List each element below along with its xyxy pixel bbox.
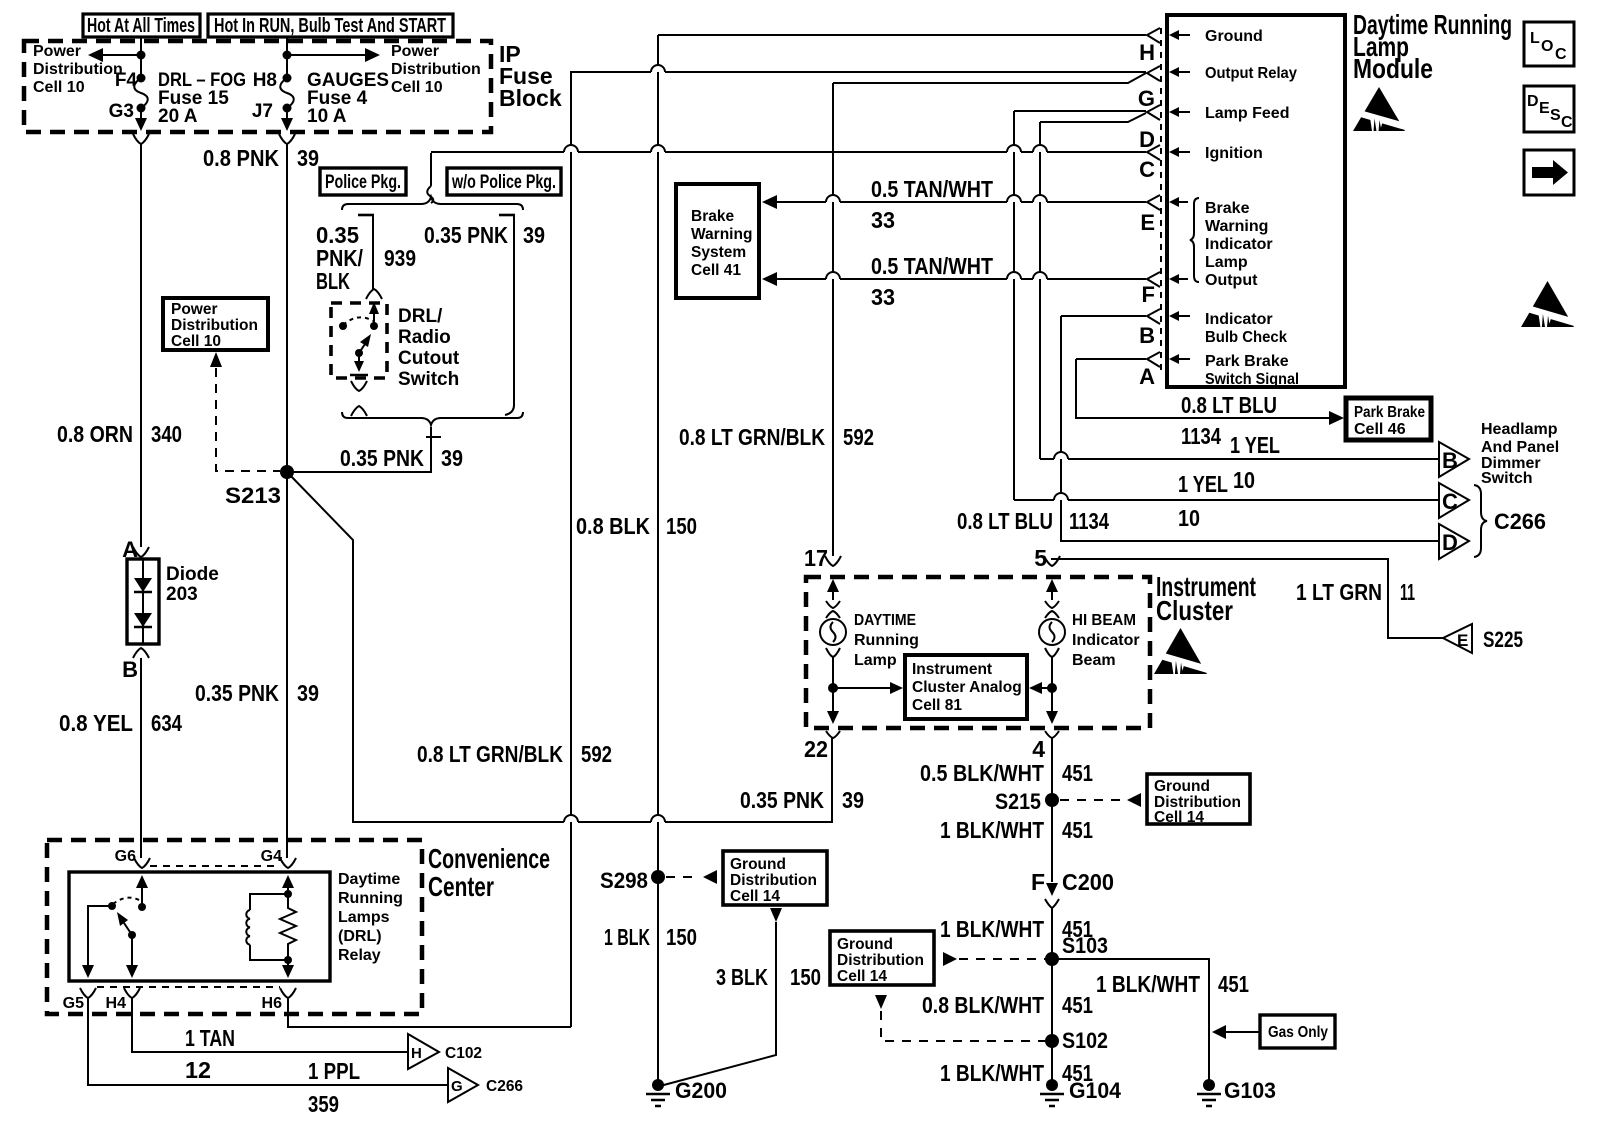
svg-text:C266: C266 <box>1494 509 1546 534</box>
ground G200 <box>646 1078 727 1106</box>
wire hi beam down to pin 4 <box>1046 688 1058 724</box>
svg-text:B: B <box>1442 448 1458 473</box>
svg-text:G3: G3 <box>109 101 134 122</box>
svg-text:Switch Signal: Switch Signal <box>1205 371 1299 388</box>
daytime running lamp bulb <box>820 619 846 645</box>
svg-text:Cell 81: Cell 81 <box>912 697 962 714</box>
svg-text:1 BLK/WHT: 1 BLK/WHT <box>940 1060 1044 1086</box>
relay wire to H6 <box>282 960 294 978</box>
label 0.5 TAN/WHT 33 (upper) <box>871 176 993 233</box>
wire 0.35 PNK 39 from S213 down to G4 <box>286 472 288 858</box>
connector break H4 <box>124 988 140 998</box>
connector break pin 17 <box>825 556 841 566</box>
svg-text:Ground: Ground <box>1205 28 1263 45</box>
svg-text:G: G <box>1138 86 1155 111</box>
svg-text:Lamp Feed: Lamp Feed <box>1205 105 1289 122</box>
svg-text:Relay: Relay <box>338 947 381 964</box>
option wire 0.35 PNK/BLK 939 (police) <box>316 215 416 294</box>
svg-text:Switch: Switch <box>1481 470 1533 487</box>
svg-text:451: 451 <box>1062 992 1093 1018</box>
Convenience Center dashed box <box>47 840 422 1014</box>
pin chevron D (lamp feed) <box>1147 105 1160 120</box>
svg-text:Gas Only: Gas Only <box>1268 1024 1328 1041</box>
connector break G5 <box>80 988 96 998</box>
svg-text:Brake: Brake <box>1205 200 1250 217</box>
svg-text:Distribution: Distribution <box>33 61 123 78</box>
DESC reference box <box>1524 86 1574 132</box>
svg-text:0.5 TAN/WHT: 0.5 TAN/WHT <box>871 176 993 202</box>
riser from brace to S213 wire <box>430 427 432 438</box>
svg-text:Ignition: Ignition <box>1205 145 1263 162</box>
svg-text:Running: Running <box>338 890 403 907</box>
svg-text:A: A <box>1139 364 1155 389</box>
svg-text:C: C <box>1561 114 1573 131</box>
connector triangle C (dimmer switch) <box>1439 483 1469 518</box>
wire S103 to G103 <box>1052 959 1209 1085</box>
connector C200 arrow and break <box>1031 869 1114 908</box>
svg-text:G200: G200 <box>675 1078 727 1103</box>
label Power Distribution Cell 10 (right) <box>391 43 481 96</box>
svg-text:Convenience: Convenience <box>428 843 550 874</box>
svg-text:S103: S103 <box>1062 933 1108 958</box>
svg-text:C102: C102 <box>445 1045 482 1062</box>
pin 5 entry arrow <box>1046 579 1058 600</box>
svg-text:B: B <box>122 657 138 682</box>
ground G103 <box>1197 1078 1276 1106</box>
svg-text:Power: Power <box>171 301 218 318</box>
wire 1 TAN 12 <box>132 998 408 1052</box>
connector triangle E S225 <box>1443 624 1523 653</box>
svg-text:0.8 ORN: 0.8 ORN <box>57 421 133 447</box>
hump ignition over 0.8 BLK vertical <box>651 145 665 152</box>
svg-text:S102: S102 <box>1062 1028 1108 1053</box>
svg-text:Cell 14: Cell 14 <box>730 888 780 905</box>
svg-text:Cutout: Cutout <box>398 348 460 369</box>
label 0.8 LT GRN/BLK 592 (upper) <box>679 424 874 450</box>
svg-text:And Panel: And Panel <box>1481 439 1559 456</box>
svg-text:33: 33 <box>871 284 895 310</box>
splice S215 <box>995 789 1059 814</box>
svg-text:22: 22 <box>804 736 828 762</box>
svg-text:1 PPL: 1 PPL <box>308 1058 360 1084</box>
relay G4 arrow <box>282 875 294 894</box>
label 1 YEL 10 (C) <box>1178 471 1228 531</box>
label 1 YEL 10 (B) <box>1230 432 1280 493</box>
svg-text:39: 39 <box>842 787 864 813</box>
box w/o Police Pkg. <box>447 168 561 195</box>
svg-text:1 BLK/WHT: 1 BLK/WHT <box>940 817 1044 843</box>
label 0.8 YEL 634 <box>59 710 182 736</box>
svg-text:Lamp: Lamp <box>854 652 897 669</box>
svg-text:340: 340 <box>151 421 182 447</box>
header box Hot At All Times <box>83 14 200 37</box>
node dot top of wire 2 <box>283 51 292 60</box>
svg-text:1 BLK/WHT: 1 BLK/WHT <box>1096 971 1200 997</box>
svg-text:150: 150 <box>790 964 821 990</box>
svg-text:D: D <box>1442 530 1458 555</box>
wire daytime lamp down to pin 22 <box>827 688 839 724</box>
svg-text:H6: H6 <box>262 995 283 1012</box>
ground G104 <box>1040 1078 1122 1106</box>
svg-text:Running: Running <box>854 632 919 649</box>
svg-text:1134: 1134 <box>1181 423 1221 449</box>
pin chevron G (output relay) <box>1147 66 1160 81</box>
pin arrow Ignition <box>1169 147 1190 157</box>
svg-text:Indicator: Indicator <box>1205 236 1273 253</box>
svg-text:0.8 BLK/WHT: 0.8 BLK/WHT <box>922 992 1044 1018</box>
svg-text:Warning: Warning <box>691 226 752 243</box>
wire S215 to C200 <box>1051 800 1053 882</box>
wire 1 YEL 10 to dimmer C <box>1014 499 1054 501</box>
label 1 BLK/WHT 451 (above C200) <box>940 817 1093 843</box>
connector triangle H C102 <box>408 1034 482 1069</box>
svg-text:1 LT GRN: 1 LT GRN <box>1296 579 1382 605</box>
svg-text:Module: Module <box>1353 53 1433 84</box>
svg-text:(DRL): (DRL) <box>338 928 382 945</box>
svg-text:Output: Output <box>1205 272 1258 289</box>
svg-text:1 YEL: 1 YEL <box>1230 432 1280 458</box>
wire indicator bulb check 0.8 LT BLU 1134 <box>1061 315 1146 317</box>
svg-text:939: 939 <box>384 245 416 271</box>
fuse F4/G3 DRL-FOG Fuse 15 20A <box>109 70 246 127</box>
svg-text:0.8 LT BLU: 0.8 LT BLU <box>957 508 1053 534</box>
svg-text:39: 39 <box>297 145 319 171</box>
arrow reference box <box>1524 150 1574 195</box>
label Instrument Cluster <box>1156 571 1256 626</box>
svg-text:33: 33 <box>871 207 895 233</box>
svg-text:BLK: BLK <box>316 268 350 294</box>
wire 1 YEL 10 to dimmer B <box>1040 458 1054 460</box>
svg-text:E: E <box>1457 631 1468 650</box>
DRL/Radio Cutout Switch dashed box <box>331 303 387 378</box>
ESD symbol (right margin) <box>1521 281 1574 327</box>
connector break below daytime lamp <box>826 648 840 657</box>
svg-text:C266: C266 <box>486 1078 523 1095</box>
svg-text:G5: G5 <box>63 995 84 1012</box>
label 1 LT GRN 11 <box>1296 579 1415 605</box>
relay switch pivot contact <box>108 902 116 910</box>
arrowhead into brake warning box (upper) <box>762 195 777 209</box>
svg-text:1 BLK/WHT: 1 BLK/WHT <box>940 916 1044 942</box>
splice S213 <box>225 465 294 508</box>
humps TAN/WHT upper over verticals <box>826 195 1047 202</box>
svg-text:F4: F4 <box>115 70 138 91</box>
box Ground Distribution Cell 14 (S215) <box>1147 774 1250 826</box>
box Ground Distribution Cell 14 (S298) <box>723 851 827 905</box>
label 0.8 LT BLU 1134 (park brake) <box>1181 392 1277 449</box>
svg-text:H8: H8 <box>253 70 277 91</box>
svg-text:G6: G6 <box>115 848 136 865</box>
wire daytime lamp to node <box>832 657 834 688</box>
svg-text:592: 592 <box>843 424 874 450</box>
humps TAN/WHT lower over verticals <box>826 272 1047 279</box>
dashed arrow S215 to ground distribution <box>1060 793 1141 807</box>
connector break pin 5 <box>1044 556 1060 566</box>
arrow daytime lamp to cell 81 <box>833 682 903 694</box>
wire from Hot At All Times <box>140 37 142 78</box>
pin arrow Indicator Bulb Check <box>1169 311 1190 321</box>
arrow Gas Only to wire <box>1212 1025 1260 1039</box>
svg-text:E: E <box>1140 210 1155 235</box>
svg-text:0.35 PNK: 0.35 PNK <box>424 222 508 248</box>
label DRL/Radio Cutout Switch <box>398 306 460 390</box>
svg-text:Bulb Check: Bulb Check <box>1205 329 1287 346</box>
label Power Distribution Cell 10 (left) <box>33 43 123 96</box>
connector break pin 4 <box>1045 731 1059 738</box>
hi beam indicator bulb <box>1039 619 1065 645</box>
connector break pin 22 <box>826 731 840 738</box>
relay switch movable arm <box>117 912 136 939</box>
svg-text:1 BLK: 1 BLK <box>604 924 650 950</box>
node daytime lamp <box>828 683 838 693</box>
svg-text:0.5 BLK/WHT: 0.5 BLK/WHT <box>920 760 1044 786</box>
arrowhead into park brake box <box>1329 411 1344 425</box>
wire 1 BLK 150 S298 to G200 <box>657 877 659 1085</box>
brace over option columns <box>342 197 523 210</box>
label DAYTIME Running Lamp <box>854 612 919 669</box>
solid box Power Distribution Cell 10 <box>163 298 268 350</box>
svg-text:System: System <box>691 244 746 261</box>
connector break G4 <box>280 858 296 868</box>
ESD symbol (module) <box>1353 87 1405 131</box>
svg-text:Hot In RUN, Bulb Test And STAR: Hot In RUN, Bulb Test And START <box>214 15 446 37</box>
relay connector dashed line top <box>150 865 280 867</box>
wire hi beam to node <box>1051 657 1053 688</box>
svg-text:451: 451 <box>1062 760 1093 786</box>
svg-text:G4: G4 <box>261 848 282 865</box>
connector break below fuse block (wire 2) <box>279 134 295 144</box>
brace under option columns <box>342 412 523 425</box>
module connector dashed boundary <box>1160 28 1162 375</box>
connector triangle B (dimmer switch) <box>1439 442 1469 477</box>
connector break above DRL switch <box>366 289 382 299</box>
DRL relay box <box>69 872 330 981</box>
connector break below diode <box>133 648 149 658</box>
hump 1 YEL C over bulb check vertical <box>1054 493 1068 500</box>
svg-text:Instrument: Instrument <box>912 661 992 678</box>
svg-text:150: 150 <box>666 924 697 950</box>
box Gas Only <box>1260 1015 1335 1048</box>
svg-text:0.35 PNK: 0.35 PNK <box>340 445 424 471</box>
connector break H6 <box>280 988 296 998</box>
wire pin 4 down to S215 <box>1051 738 1053 800</box>
label 0.8 LT BLU 1134 (bulb check) <box>957 508 1109 534</box>
svg-text:G103: G103 <box>1224 1078 1276 1103</box>
svg-text:G104: G104 <box>1069 1078 1122 1103</box>
label 0.5 TAN/WHT 33 (lower) <box>871 253 993 310</box>
svg-text:1 YEL: 1 YEL <box>1178 471 1228 497</box>
svg-text:20 A: 20 A <box>158 106 198 127</box>
svg-text:S215: S215 <box>995 789 1041 814</box>
svg-text:39: 39 <box>441 445 463 471</box>
svg-text:Cell 10: Cell 10 <box>33 79 85 96</box>
relay switch wire to G5 <box>82 906 112 978</box>
svg-text:592: 592 <box>581 741 612 767</box>
svg-text:359: 359 <box>308 1091 339 1117</box>
box Instrument Cluster Analog Cell 81 <box>905 655 1027 719</box>
wire 0.35 PNK down from fuse 2 to S213 <box>286 144 288 467</box>
label 0.8 BLK 150 <box>576 513 697 539</box>
svg-text:C: C <box>1442 489 1458 514</box>
arrow to Power Distribution (right) <box>287 48 380 62</box>
svg-text:Cell 46: Cell 46 <box>1354 421 1406 438</box>
svg-text:Ground: Ground <box>837 936 893 953</box>
label 0.8 PNK 39 <box>203 145 319 171</box>
relay switch dashed travel arc <box>113 898 141 904</box>
svg-text:634: 634 <box>151 710 182 736</box>
fuse H8/J7 GAUGES Fuse 4 10A <box>252 70 389 127</box>
hump ignition over 592 vertical <box>564 145 578 152</box>
svg-text:0.35 PNK: 0.35 PNK <box>195 680 279 706</box>
svg-text:Cell 14: Cell 14 <box>1154 809 1204 826</box>
connector break G6 <box>134 858 150 868</box>
connector break below hi beam <box>1045 648 1059 657</box>
wire lamp feed second branch 1 YEL to dimmer B <box>1040 113 1146 122</box>
arrowhead into brake warning box (lower) <box>762 272 777 286</box>
connector break above diode <box>133 547 149 557</box>
svg-text:Indicator: Indicator <box>1072 632 1140 649</box>
node hi beam <box>1047 683 1057 693</box>
svg-text:F: F <box>1142 282 1155 307</box>
svg-text:DRL/: DRL/ <box>398 306 443 327</box>
pin 17 entry arrow <box>827 579 839 600</box>
svg-text:Cell 41: Cell 41 <box>691 262 741 279</box>
svg-text:F: F <box>1031 869 1045 895</box>
label 1 PPL 359 <box>308 1058 360 1117</box>
arrow to Power Distribution (left) <box>88 48 141 62</box>
pin chevron B (indicator bulb check) <box>1147 309 1160 324</box>
DRL cutout switch <box>339 302 379 375</box>
label 0.8 BLK/WHT 451 <box>922 992 1093 1018</box>
hump pin22 wire over 0.8 BLK vertical <box>651 815 665 822</box>
svg-text:11: 11 <box>1400 579 1415 605</box>
svg-text:Radio: Radio <box>398 327 451 348</box>
dashed arrow ground distribution to S103 <box>943 952 1045 966</box>
svg-text:S225: S225 <box>1483 627 1523 652</box>
svg-text:J7: J7 <box>252 101 273 122</box>
label 3 BLK 150 <box>716 964 821 990</box>
label 0.8 LT GRN/BLK 592 (lower) <box>417 741 612 767</box>
svg-text:H: H <box>1139 40 1155 65</box>
label Brake Warning Indicator Lamp Output <box>1205 200 1273 289</box>
wire from Hot In RUN box <box>286 37 288 78</box>
label 1 BLK/WHT 451 (to G104) <box>940 1060 1093 1086</box>
svg-text:Ground: Ground <box>1154 778 1210 795</box>
svg-text:Cluster: Cluster <box>1156 595 1233 626</box>
dashed arrow ground distribution to S102 <box>875 995 1045 1041</box>
wire 0.5 TAN/WHT 33 (lower) to brake warning <box>774 278 826 280</box>
svg-text:0.8 PNK: 0.8 PNK <box>203 145 279 171</box>
svg-text:G: G <box>451 1078 463 1095</box>
Instrument Cluster dashed box <box>806 577 1150 728</box>
diode 203 <box>127 559 219 644</box>
svg-text:H4: H4 <box>106 995 127 1012</box>
hump 1 YEL B over bulb check vertical <box>1054 452 1068 459</box>
svg-text:Power: Power <box>33 43 81 60</box>
svg-text:w/o Police Pkg.: w/o Police Pkg. <box>451 172 556 193</box>
pin arrow Ground <box>1169 30 1190 40</box>
svg-text:3 BLK: 3 BLK <box>716 964 768 990</box>
connector break pair below DRL switch <box>351 381 367 416</box>
splice S103 <box>1045 933 1108 966</box>
svg-text:Center: Center <box>428 871 494 902</box>
pin chevron F (brake warning lower) <box>1147 272 1160 287</box>
wire 0.8 YEL 634 <box>140 658 142 858</box>
svg-text:39: 39 <box>523 222 545 248</box>
box Park Brake Cell 46 <box>1346 398 1431 440</box>
wire 1 PPL 359 <box>88 998 448 1085</box>
ESD symbol (instrument cluster) <box>1154 628 1207 674</box>
label Indicator Bulb Check <box>1205 311 1287 346</box>
connector triangle D (dimmer switch) <box>1439 524 1469 559</box>
svg-text:H: H <box>411 1045 422 1062</box>
label 1 BLK/WHT 451 (S103 right) <box>1096 971 1249 997</box>
svg-text:203: 203 <box>166 584 198 605</box>
label Park Brake Switch Signal <box>1205 353 1299 388</box>
wire from S213 right and up to option brace <box>287 438 431 472</box>
svg-text:0.8 YEL: 0.8 YEL <box>59 710 133 736</box>
dashed arrow S298 to ground distribution <box>666 870 717 884</box>
svg-text:150: 150 <box>666 513 697 539</box>
svg-text:10 A: 10 A <box>307 106 347 127</box>
svg-text:Power: Power <box>391 43 439 60</box>
pin arrow Output Relay <box>1169 67 1190 77</box>
svg-text:Switch: Switch <box>398 369 459 390</box>
svg-text:C: C <box>1555 46 1567 63</box>
squiggle link to brace <box>427 186 433 203</box>
svg-text:1134: 1134 <box>1069 508 1109 534</box>
relay switch G6 contact arrow <box>136 875 148 911</box>
svg-text:0.8 LT BLU: 0.8 LT BLU <box>1181 392 1277 418</box>
label 1 BLK/WHT 451 (below C200) <box>940 916 1093 942</box>
svg-text:Lamps: Lamps <box>338 909 390 926</box>
wire 0.8 LT GRN/BLK 592 (relay H6 to module output relay) <box>571 72 651 1027</box>
label 0.35 PNK 39 (left column) <box>195 680 319 706</box>
relay resistor <box>280 894 296 960</box>
box Ground Distribution Cell 14 (S103/S102) <box>830 931 934 985</box>
pin arrow brake warning lower <box>1169 274 1188 284</box>
svg-text:DAYTIME: DAYTIME <box>854 612 916 629</box>
svg-text:Brake: Brake <box>691 208 734 225</box>
wire C200 to S103 <box>1051 908 1053 959</box>
relay coil branch <box>246 890 292 964</box>
svg-text:Block: Block <box>499 85 562 111</box>
arrow hi beam to cell 81 <box>1029 682 1052 694</box>
connector triangle G C266 <box>448 1068 523 1102</box>
wire 1 LT GRN 11 from cluster pin 5 to S225 <box>1051 559 1443 638</box>
svg-text:HI BEAM: HI BEAM <box>1072 612 1136 629</box>
svg-text:S: S <box>1550 107 1561 124</box>
connector break pair daytime lamp <box>826 601 840 618</box>
wire 0.8 BLK 150 (module ground to S298) <box>658 34 1146 36</box>
label 0.5 BLK/WHT 451 <box>920 760 1093 786</box>
svg-text:0.5 TAN/WHT: 0.5 TAN/WHT <box>871 253 993 279</box>
svg-text:17: 17 <box>804 545 828 571</box>
pin chevron C (ignition) <box>1147 145 1160 160</box>
pin arrow brake warning upper <box>1169 197 1188 207</box>
svg-text:Park Brake: Park Brake <box>1205 353 1289 370</box>
svg-text:451: 451 <box>1062 817 1093 843</box>
arrow down out of fuse block (wire 2) <box>281 108 293 131</box>
pin arrow Lamp Feed <box>1169 107 1190 117</box>
svg-text:0.8 BLK: 0.8 BLK <box>576 513 650 539</box>
svg-text:Headlamp: Headlamp <box>1481 421 1558 438</box>
wire S102 to G104 <box>1051 1041 1053 1085</box>
relay switch wire to H4 <box>126 935 138 978</box>
label Convenience Center <box>428 843 550 902</box>
svg-text:10: 10 <box>1233 467 1255 493</box>
svg-text:12: 12 <box>185 1057 211 1083</box>
